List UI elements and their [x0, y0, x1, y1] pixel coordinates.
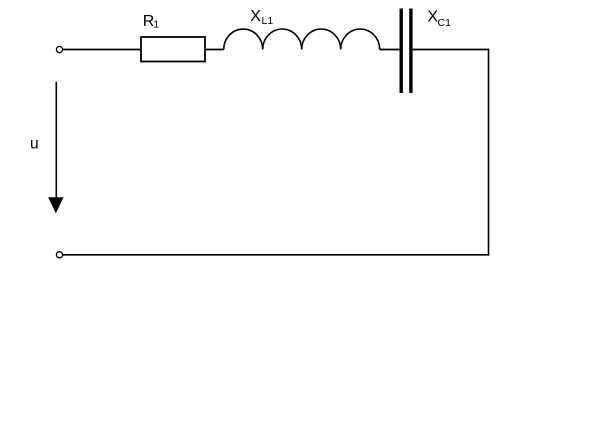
terminal node B (bottom-left input)	[56, 252, 62, 258]
wire: terminal A to resistor R1	[63, 49, 141, 51]
svg-text:C1: C1	[438, 17, 452, 29]
voltage arrow u: shaft	[55, 82, 57, 199]
wire: inductor XL1 to capacitor XC1	[380, 49, 400, 51]
svg-text:1: 1	[153, 19, 159, 31]
svg-text:L1: L1	[262, 15, 274, 27]
svg-text:u: u	[30, 136, 39, 153]
inductor XL1 (4 semicircular turns)	[224, 29, 380, 50]
resistor R1	[141, 37, 205, 62]
capacitor XC1 plate 1	[400, 9, 403, 94]
wire: resistor R1 to inductor XL1	[205, 49, 224, 51]
terminal node A (top-left input)	[56, 46, 62, 52]
svg-text:X: X	[250, 8, 261, 25]
wire: bottom horizontal segment	[63, 254, 490, 256]
wire: capacitor XC1 to top-right corner	[413, 49, 490, 51]
voltage arrow u: head	[48, 197, 63, 213]
capacitor XC1 plate 2	[409, 9, 412, 94]
wire: right vertical segment	[488, 49, 490, 256]
